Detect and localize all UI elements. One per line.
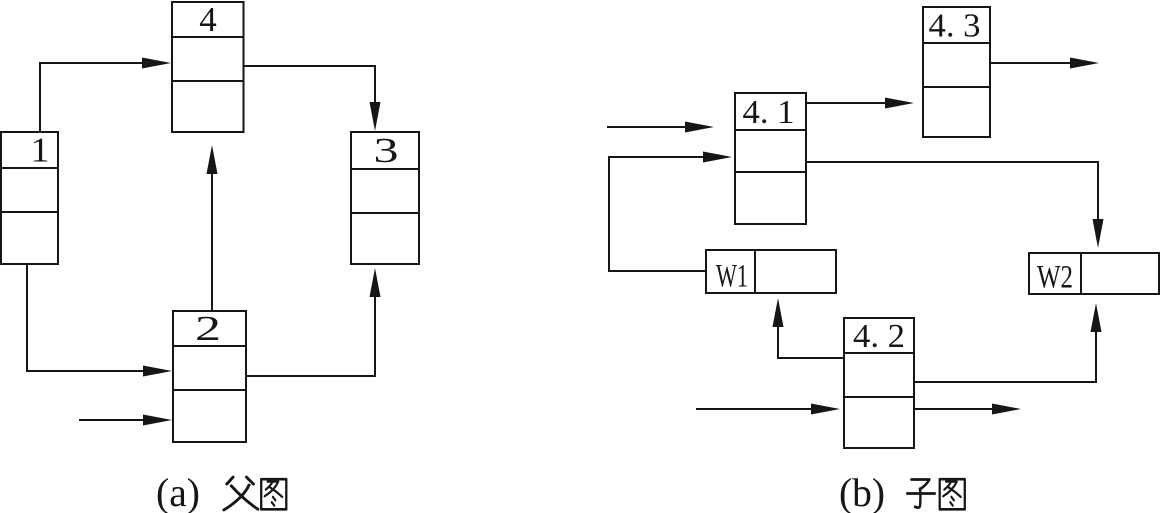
svg-text:(b): (b) bbox=[839, 470, 885, 513]
svg-text:4. 1: 4. 1 bbox=[743, 94, 795, 131]
svg-text:3: 3 bbox=[374, 131, 399, 170]
svg-text:4. 2: 4. 2 bbox=[853, 318, 905, 355]
svg-text:1: 1 bbox=[31, 131, 50, 170]
svg-text:4. 3: 4. 3 bbox=[929, 8, 981, 45]
svg-text:W1: W1 bbox=[716, 259, 748, 295]
svg-text:4: 4 bbox=[199, 0, 217, 39]
svg-text:W2: W2 bbox=[1037, 260, 1073, 296]
svg-text:2: 2 bbox=[195, 309, 221, 348]
svg-text:(a): (a) bbox=[156, 470, 200, 513]
